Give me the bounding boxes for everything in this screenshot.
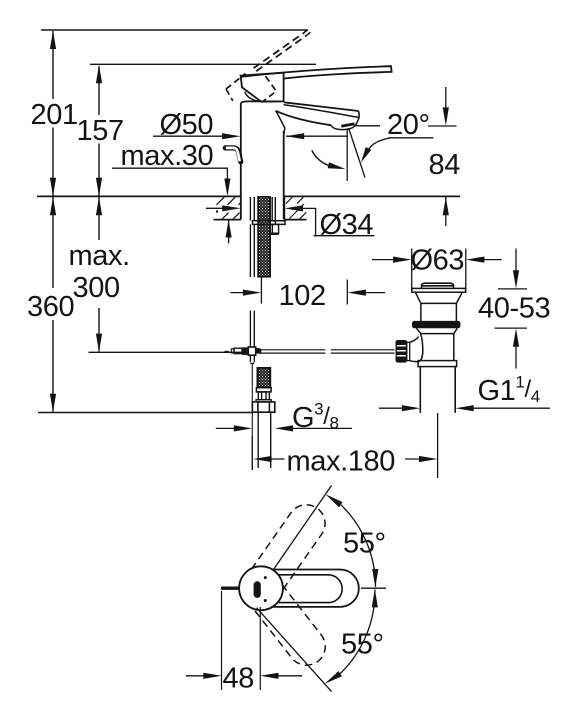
cartridge joint line body top [241, 101, 282, 103]
arrowhead 48 left [260, 673, 278, 679]
pull rod in deck hole [250, 197, 254, 221]
svg-text:20°: 20° [387, 109, 430, 141]
extension line solid lever top level [90, 63, 316, 65]
max.30 lower arrow stem [228, 220, 230, 244]
G 1 1/4 dimension line [379, 407, 550, 409]
svg-text:102: 102 [279, 280, 326, 312]
right hose lines in deck hole [272, 197, 275, 225]
rod centerline dash left [225, 350, 230, 352]
20 degree angled line [349, 128, 365, 178]
pop-up rod horizontal left span [258, 350, 325, 353]
arrowhead 40-53 down [513, 270, 519, 288]
svg-text:max.: max. [69, 240, 130, 272]
max.300 bottom reference line (pop-up rod level) [89, 351, 244, 353]
angle arc upper [341, 505, 376, 587]
washer above nut [256, 400, 271, 402]
arrowhead G38 left [275, 425, 293, 431]
svg-text:84: 84 [429, 149, 461, 181]
pull rod lower segment [250, 311, 254, 347]
mounting flange washer [253, 221, 286, 225]
pivot dot upper [264, 576, 267, 579]
svg-text:G11/4: G11/4 [478, 373, 540, 408]
arrowhead max30 down at deck top [224, 179, 230, 197]
aerator dark lip [341, 124, 354, 126]
dashed handle square corner a [226, 74, 246, 90]
lever slot mark [254, 581, 261, 598]
svg-text:40-53: 40-53 [478, 293, 550, 325]
svg-text:360: 360 [27, 291, 74, 323]
arrowhead upper arc bottom [372, 569, 378, 587]
svg-text:55°: 55° [343, 528, 386, 560]
dashed lever tip cap [305, 30, 311, 35]
lift rod knob hook inner white [226, 148, 240, 161]
water flow arc [312, 150, 329, 165]
tilted line upper 55 [273, 486, 331, 570]
arrowhead 201 up [50, 31, 56, 49]
knob face plate [407, 342, 410, 360]
dimension line 157 vertical [98, 66, 100, 196]
svg-text:300: 300 [73, 272, 120, 304]
arrowhead lower arc bottom [325, 671, 342, 684]
rod clevis end piece [231, 349, 234, 353]
rod cross joint right block [256, 348, 261, 354]
20 degree underline [388, 137, 434, 139]
G3/8 hex nut [252, 402, 274, 412]
20 degree curved leader to angled line [369, 138, 434, 150]
arrowhead 102 right [243, 290, 261, 296]
arrowhead O63 right [393, 257, 411, 263]
max.30 leader line [112, 168, 227, 180]
hose collar [256, 388, 271, 392]
dashed handle rotated up [251, 497, 332, 590]
48 extension line right [259, 607, 261, 690]
hole left edge through deck [240, 196, 242, 219]
knob lug to body [410, 334, 423, 362]
84 dimension upper stem and tick [428, 87, 457, 126]
mounting nipple block right [270, 224, 279, 234]
aerator mouth outline [331, 118, 359, 130]
dimension line 360 vertical [52, 197, 54, 412]
arrowhead 102 left [348, 290, 366, 296]
dimension line 201 vertical [52, 31, 54, 196]
svg-text:Ø34: Ø34 [320, 209, 374, 241]
Ø34 right leader elbow [302, 208, 375, 235]
centerline right of circle [361, 587, 386, 589]
arrowhead G38 right [234, 425, 252, 431]
arrowhead 157 up [96, 65, 102, 83]
arrowhead 48 right [203, 673, 221, 679]
arrowhead 84 up at deck [443, 197, 449, 215]
pop-up waste valve cap [422, 283, 454, 288]
40-53 dimension stems and ticks [495, 249, 528, 369]
top view base circle [239, 566, 283, 610]
svg-text:157: 157 [77, 115, 124, 147]
deck hatching left of hole [217, 197, 241, 219]
arrowhead max300 up below deck [96, 197, 102, 215]
deck hatching right of hole [286, 197, 306, 220]
tilted line lower 55 [257, 608, 332, 692]
handle base block [241, 73, 284, 102]
hose nipple with slot [258, 392, 269, 400]
84 dimension lower stem [445, 197, 447, 226]
svg-text:Ø63: Ø63 [411, 245, 465, 277]
deck bottom line right segment [284, 219, 306, 221]
valve neck taper [415, 292, 462, 303]
arrowhead O50 left inner [286, 133, 304, 139]
rod cross joint left block [242, 348, 248, 355]
svg-text:max.180: max.180 [287, 446, 395, 478]
rod cross joint center [248, 347, 255, 355]
closed position tab left [221, 587, 240, 590]
hole right edge through deck [283, 196, 285, 219]
cartridge dome arc [245, 92, 259, 101]
102 dimension left extension and line [231, 277, 262, 304]
arrowhead O50 right [222, 133, 240, 139]
extension line top (raised lever tip level) [41, 29, 308, 31]
angle arc lower [340, 590, 375, 674]
arrowhead max300 down [96, 334, 102, 352]
arrowhead O34 left at hole [285, 205, 303, 211]
spout tip face [358, 111, 361, 118]
valve lower body [453, 334, 455, 361]
arrowhead upper arc top [326, 494, 343, 507]
valve brim flange [412, 288, 466, 292]
rubber seal ring black [412, 321, 460, 328]
spout bottom edge [276, 111, 331, 125]
Ø34 left leader with dot [206, 207, 226, 209]
hairline centerline to G3/8 nut [251, 364, 253, 470]
dashed handle rotated down [252, 585, 332, 673]
arrowhead G114 right [402, 405, 420, 411]
svg-text:Ø50: Ø50 [160, 109, 214, 141]
Ø63 dimension line [372, 259, 502, 261]
G 3/8 dimension line [216, 427, 352, 429]
supply pipe below nut [258, 412, 271, 468]
rod clevis left [234, 348, 242, 353]
solid lever blade [241, 66, 392, 78]
360 bottom reference line [38, 412, 252, 414]
20 degree leader from aerator [354, 125, 380, 127]
threaded shank with crosshatch [258, 197, 270, 277]
Ø50 dimension line with arrows [153, 135, 224, 137]
top view handle inner stadium [278, 575, 342, 603]
max.180 extension line left [251, 436, 253, 470]
pull rod upper segment [250, 224, 254, 277]
vertical reference line below aerator [346, 129, 348, 182]
spout crease to body shoulder [276, 111, 285, 136]
deck top line right segment [284, 195, 460, 197]
pop-up rod horizontal right span [331, 350, 395, 353]
svg-text:48: 48 [223, 663, 254, 695]
48 extension line left [221, 591, 223, 690]
arrowhead 201 down at deck [50, 178, 56, 196]
arrowhead O63 left [466, 257, 484, 263]
deck top line left segment [37, 195, 241, 197]
dashed handle square corner b [226, 89, 233, 101]
lift rod knob hook outer [225, 148, 240, 162]
arrowhead max180 right at centerline [419, 456, 437, 462]
arrowhead O34 right at hole [222, 205, 240, 211]
48 dimension line segments [186, 675, 302, 677]
arrowhead 360 up below deck [50, 197, 56, 215]
arrowhead max30 up at deck bottom [226, 220, 232, 238]
dashed raised lever line 1 [254, 32, 305, 68]
svg-text:201: 201 [31, 99, 78, 131]
arrowhead 84 down [443, 107, 449, 125]
braided hose [257, 368, 270, 388]
svg-text:max.30: max.30 [121, 140, 214, 172]
arrowhead G114 left [455, 405, 473, 411]
dimension line max.300 vertical [98, 197, 100, 352]
arrowhead 40-53 up [513, 328, 519, 346]
arrowhead flow arc [328, 162, 346, 169]
deck bottom line left segment [214, 219, 241, 221]
faucet body right edge [283, 131, 285, 219]
dashed handle square corner c [263, 76, 277, 101]
band below ring [416, 328, 457, 333]
arrowhead 157 down at deck [96, 178, 102, 196]
valve tailpipe [420, 367, 455, 413]
Ø63 extension lines [412, 249, 466, 291]
dashed raised lever line 2 [256, 35, 307, 71]
spout top edge [284, 102, 359, 111]
102 dimension right extension and line [347, 280, 385, 305]
top view handle outer stadium [273, 570, 359, 607]
svg-text:55°: 55° [341, 629, 384, 661]
arrowhead 360 down [50, 394, 56, 412]
valve upper body [421, 303, 457, 321]
pivot dot lower [264, 599, 267, 602]
drain centerline below valve [437, 413, 439, 478]
arrowhead 20deg leader [361, 147, 371, 163]
locking ring double band [418, 361, 457, 367]
pull rod below cross [250, 356, 254, 363]
max.180 dimension segments [264, 458, 422, 460]
faucet body left edge [240, 104, 242, 220]
arrowhead max180 left [253, 456, 271, 462]
knurled side knob [396, 340, 407, 362]
arrowhead lower arc top [372, 589, 378, 607]
spout top band inner line [284, 105, 359, 118]
